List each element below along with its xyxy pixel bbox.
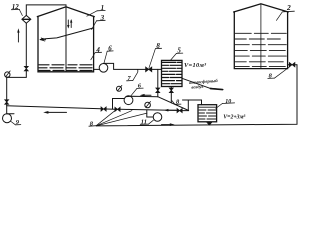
tank T10 liquid dashes [199, 110, 216, 119]
label 8 top [149, 42, 162, 68]
label 12 [11, 3, 22, 16]
pipe into tank5 [152, 68, 162, 70]
label 9 [11, 119, 21, 126]
wire L1 end [182, 110, 188, 112]
fitting 7 tick on pipe [137, 69, 139, 72]
tank5 drop D2 [170, 87, 172, 103]
text V=10m3 [184, 62, 206, 69]
tank T5 liquid dashes [163, 62, 182, 83]
valve V3 [177, 109, 182, 113]
breather pipe into tank T1 [26, 5, 66, 72]
valve V1 [101, 107, 106, 111]
filter F12 diamond [22, 15, 31, 23]
suction hose 3 inside tank T1 [40, 28, 93, 40]
diagonal feed to tank10 [158, 97, 189, 111]
gauge M1 (counter at corner) [5, 71, 11, 77]
label 3 [92, 14, 106, 29]
valve V4 [289, 63, 295, 67]
breather arrows down/up [67, 19, 72, 29]
pipe elbow to gauge corner [7, 71, 27, 78]
pump P3 (11) [153, 113, 162, 122]
label 8 fan (valves) [89, 110, 147, 128]
valve on D2 [169, 88, 173, 93]
tank T2 shell [234, 4, 289, 69]
label 7 [127, 72, 138, 82]
label 4 [91, 46, 102, 60]
label 5 [171, 47, 183, 61]
gauge M3 [145, 102, 151, 108]
floating flow arrow left [43, 111, 66, 114]
tank T2 liquid dashes [235, 33, 286, 66]
tank5 drop D1 [157, 69, 159, 96]
label 8 mid [172, 98, 181, 105]
label 2 [276, 3, 294, 20]
vent text [189, 78, 218, 90]
svg-text:10: 10 [225, 99, 231, 105]
flow arrow left on L1 [164, 109, 176, 112]
wire valve to riser [295, 64, 297, 66]
discharge pipe to tank5 [104, 63, 146, 69]
tank T1 shell [37, 7, 94, 72]
valve on drop pipe [5, 100, 9, 105]
vent diagonal from tank5 [182, 78, 223, 89]
text V=2-3m3 [223, 115, 245, 121]
wire L1 mid [106, 108, 115, 110]
filter drop pipe [25, 23, 27, 66]
label 8 right [268, 67, 290, 80]
valve V5 [146, 67, 152, 72]
tank T1 liquid dashes [39, 65, 92, 71]
flow arrow right bottom [162, 123, 175, 126]
label 6 pump P1 [104, 44, 113, 63]
tank T5 shell [162, 60, 183, 86]
valve V2 [115, 107, 120, 111]
pump P2 discharge line [126, 95, 158, 98]
label 10 [216, 99, 235, 108]
pump 9 [3, 114, 15, 123]
tank T2 centerline [260, 5, 262, 69]
tank T2 outlet stub [288, 64, 290, 66]
label 6 pump P2 [131, 83, 144, 97]
valve on D1 [156, 88, 160, 93]
label 11 [140, 118, 153, 125]
gauge M2 [117, 85, 122, 91]
flow arrow left on discharge [140, 94, 151, 97]
label 1 [87, 4, 105, 16]
svg-text:3: 3 [100, 14, 105, 22]
svg-text:2: 2 [286, 3, 291, 12]
flow arrow up beside filter pipe [17, 28, 19, 42]
svg-text:V=2+3м³: V=2+3м³ [223, 115, 245, 121]
tank T10 shell [198, 105, 217, 122]
riser to pump 6b line [113, 99, 125, 110]
pump P1 (6) at tank1 [99, 64, 108, 73]
svg-text:V=10м³: V=10м³ [184, 62, 206, 69]
wire L1 right [120, 109, 177, 110]
riser into tank10 [183, 100, 202, 111]
tank T10 drain [206, 122, 212, 125]
suction line L1 [7, 106, 101, 109]
bottom return line [96, 65, 297, 126]
svg-text:воздух: воздух [191, 84, 204, 90]
suction stub from tank1 [94, 68, 100, 70]
drop pipe to pump 9 [6, 77, 8, 113]
pump 11 feed [147, 110, 153, 117]
pump P2 [124, 96, 133, 105]
valve on filter pipe [24, 66, 28, 71]
